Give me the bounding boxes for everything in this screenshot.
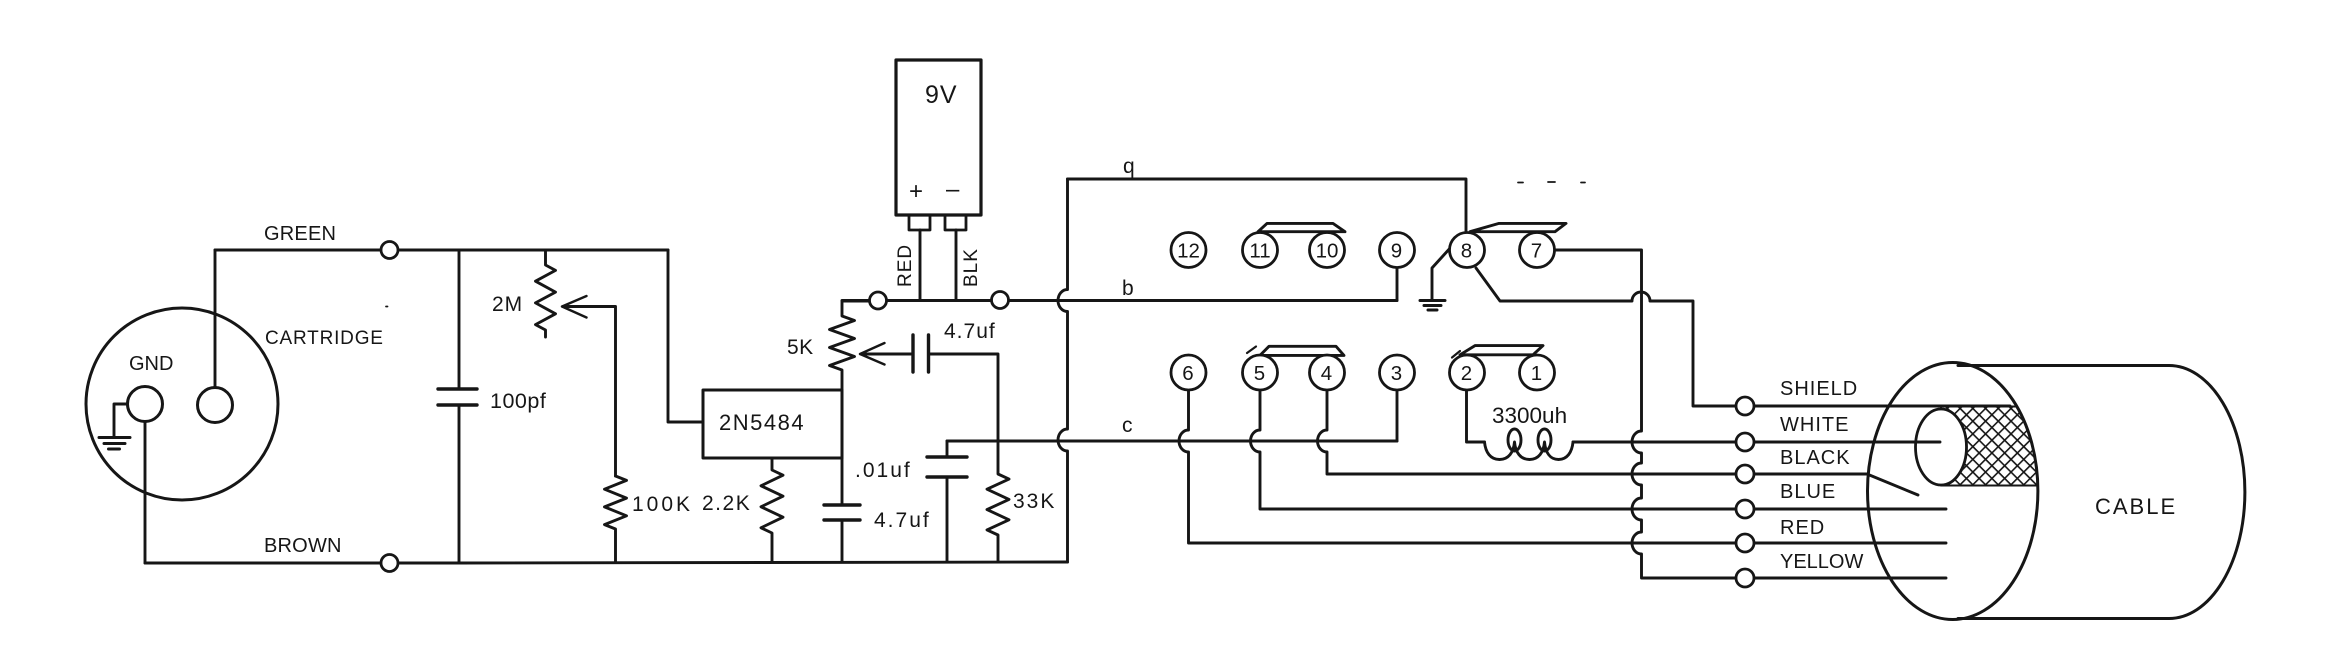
wire pin7 right and down (hops 4 lines) to YELLOW	[1555, 250, 1947, 578]
jumper bar 5-4	[1260, 346, 1344, 355]
svg-text:12: 12	[1177, 240, 1200, 263]
pin 6	[1171, 355, 1206, 390]
connector shell	[86, 308, 278, 500]
node b2	[992, 292, 1009, 309]
node RED	[1736, 534, 1754, 552]
pin 2	[1450, 355, 1485, 390]
svg-text:100pf: 100pf	[490, 389, 546, 413]
wire pin9 to b	[1396, 268, 1399, 301]
wire RED (battery +)	[919, 230, 922, 300]
actuator tick (2-1)	[1452, 351, 1460, 358]
svg-text:10: 10	[1316, 240, 1339, 263]
svg-text:9: 9	[1391, 240, 1403, 263]
bus q top wire	[1068, 179, 1467, 233]
pin 11	[1243, 233, 1278, 268]
wire GREEN	[215, 249, 668, 252]
node BROWN	[381, 555, 398, 572]
svg-text:BLACK: BLACK	[1780, 447, 1851, 469]
wire pin4 down (hops c) to BLACK line	[1318, 390, 1868, 474]
pin 10	[1310, 233, 1345, 268]
wire BROWN / bottom rail	[145, 562, 1068, 563]
svg-text:WHITE: WHITE	[1780, 414, 1849, 436]
svg-text:33K: 33K	[1013, 490, 1056, 513]
jumper bar 2-1	[1460, 346, 1543, 355]
svg-text:2: 2	[1461, 362, 1473, 385]
pin GND	[128, 387, 163, 422]
potentiometer R1 2M	[536, 250, 556, 337]
node GREEN	[381, 242, 398, 259]
svg-text:CARTRIDGE: CARTRIDGE	[265, 328, 384, 349]
wire signal pin up	[214, 250, 217, 388]
wire GND pin down	[144, 422, 147, 564]
node SHIELD	[1736, 397, 1754, 415]
bus q vertical (hops over b and c)	[1058, 179, 1068, 562]
svg-text:SHIELD: SHIELD	[1780, 378, 1858, 400]
wire pin5 down (hops c) to BLUE line	[1251, 390, 1947, 509]
resistor R3 2.2K	[761, 458, 783, 562]
svg-text:2N5484: 2N5484	[719, 410, 805, 435]
cable body	[1868, 363, 2245, 620]
battery B1 9V	[896, 60, 981, 230]
pin 8	[1450, 233, 1485, 268]
svg-text:RED: RED	[895, 244, 916, 287]
resistor R2 100K	[605, 476, 627, 562]
svg-text:RED: RED	[1780, 517, 1825, 539]
wire pin3 to c	[1396, 390, 1399, 441]
bus c wire	[947, 440, 1397, 443]
pin 5	[1243, 355, 1278, 390]
scan specks	[386, 182, 1585, 307]
node BLUE	[1736, 500, 1754, 518]
inductor L1 3300uh	[1485, 429, 1574, 460]
svg-text:b: b	[1122, 277, 1135, 300]
svg-text:GREEN: GREEN	[264, 223, 336, 245]
svg-text:3300uh: 3300uh	[1492, 403, 1567, 428]
svg-text:100K: 100K	[632, 493, 693, 516]
wire pin2 to inductor	[1467, 390, 1485, 442]
ground (pin 8)	[1420, 246, 1452, 310]
cable core	[1916, 409, 1967, 485]
ground (cartridge)	[99, 404, 130, 449]
svg-text:q: q	[1123, 155, 1136, 178]
wire BLK (battery -)	[955, 230, 958, 300]
svg-text:6: 6	[1182, 362, 1194, 385]
svg-text:GND: GND	[129, 353, 173, 375]
svg-text:c: c	[1122, 414, 1134, 437]
resistor R5 5K (pot)	[830, 301, 870, 390]
svg-text:1: 1	[1531, 362, 1543, 385]
node BLACK	[1736, 465, 1754, 483]
transistor Q1 2N5484	[703, 390, 842, 458]
svg-text:5: 5	[1254, 362, 1266, 385]
pin signal	[198, 388, 233, 423]
wiper arrow (2M)	[562, 296, 616, 476]
svg-text:2.2K: 2.2K	[702, 492, 751, 515]
pin 3	[1380, 355, 1415, 390]
wire BLACK diagonal into cable	[1867, 474, 1918, 495]
svg-text:.01uf: .01uf	[855, 459, 912, 482]
node YELLOW	[1736, 569, 1754, 587]
svg-text:8: 8	[1461, 240, 1473, 263]
svg-text:BROWN: BROWN	[264, 535, 342, 557]
node b1	[870, 292, 887, 309]
resistor R4 33K	[987, 441, 1009, 562]
wire WHITE from inductor	[1573, 441, 1940, 444]
actuator tick (5-4)	[1247, 347, 1256, 354]
capacitor C4 4.7uf (coupling)	[913, 335, 998, 441]
svg-text:11: 11	[1249, 240, 1270, 263]
cable braid hatch	[1941, 407, 2038, 486]
pin 1	[1520, 355, 1555, 390]
capacitor C2 4.7uf (source bypass)	[824, 458, 860, 562]
bus b wire	[842, 299, 1397, 302]
pin 4	[1310, 355, 1345, 390]
pin 9	[1380, 233, 1415, 268]
node WHITE	[1736, 433, 1754, 451]
svg-text:BLK: BLK	[961, 248, 982, 287]
wire pin6 down (hops c) to RED line	[1179, 390, 1946, 543]
svg-text:7: 7	[1531, 240, 1543, 263]
capacitor C3 .01uf	[927, 441, 967, 562]
svg-text:2M: 2M	[492, 293, 523, 316]
svg-text:BLUE: BLUE	[1780, 481, 1836, 503]
svg-text:4: 4	[1321, 362, 1333, 385]
pin 7	[1520, 233, 1555, 268]
wiper arrow (5K)	[860, 343, 911, 365]
capacitor C1 100pf	[438, 250, 477, 562]
svg-text:–: –	[946, 176, 960, 203]
svg-text:4.7uf: 4.7uf	[874, 509, 931, 532]
svg-text:+: +	[909, 178, 924, 205]
svg-text:5K: 5K	[787, 336, 814, 359]
jumper bar 8-7	[1470, 223, 1566, 231]
jumper bar 11-10	[1258, 223, 1345, 231]
wire pin8 to SHIELD	[1476, 268, 2010, 406]
svg-text:YELLOW: YELLOW	[1780, 551, 1863, 573]
svg-text:4.7uf: 4.7uf	[944, 320, 996, 343]
svg-text:9V: 9V	[925, 81, 958, 109]
pin 12	[1171, 233, 1206, 268]
svg-text:3: 3	[1391, 362, 1403, 385]
wire gate	[668, 250, 703, 422]
svg-text:CABLE: CABLE	[2095, 494, 2177, 519]
